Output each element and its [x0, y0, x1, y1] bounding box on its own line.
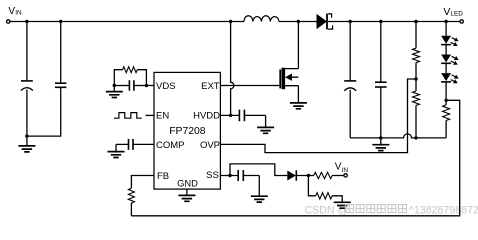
wire OVP pin to divider tap	[220, 79, 416, 153]
svg-text:OVP: OVP	[200, 140, 220, 151]
LED D4	[441, 54, 460, 66]
capacitor COMP	[116, 139, 154, 150]
wire inductor to diode anode	[279, 21, 317, 23]
wire C1 bottom lead	[26, 90, 28, 137]
wire FB pin stub	[131, 176, 154, 189]
ground HVDD cap	[257, 115, 274, 133]
junction OVP divider mid	[414, 77, 417, 80]
VIN input terminal	[7, 20, 10, 23]
wire Co2 bottom lead	[380, 87, 382, 138]
wire HVDD pin stub	[220, 114, 239, 116]
wire Co1 top lead	[349, 22, 351, 81]
diode D2 dimming	[287, 170, 296, 180]
capacitor Co1 electrolytic output	[344, 81, 356, 91]
wire rail diode to VLED	[328, 21, 460, 23]
wire Q1 drain to rail	[297, 22, 299, 69]
svg-text:SS: SS	[206, 170, 219, 181]
svg-text:FB: FB	[157, 171, 169, 182]
junction HVDD node	[229, 114, 232, 117]
wire LED2-LED3	[445, 63, 447, 73]
wire SS dimming loop	[230, 164, 287, 176]
svg-text:LED: LED	[450, 11, 463, 18]
wire VIN top rail	[10, 21, 244, 23]
junction input C2 top	[59, 20, 62, 23]
resistor OVP divider upper	[413, 22, 420, 80]
wire Q1 source down	[297, 86, 299, 103]
junction input C1 top	[25, 20, 28, 23]
watermark CJK glyph blocks	[346, 205, 407, 213]
svg-text:IN: IN	[15, 9, 22, 16]
ground IC GND pin	[178, 189, 195, 201]
wire output ground bus (hops over OVP riser)	[350, 134, 446, 138]
node VLED label	[443, 6, 463, 18]
junction OVP divider top	[414, 20, 417, 23]
resistor dim pull-up	[314, 172, 332, 178]
junction output ground node	[379, 136, 382, 139]
svg-text:^13828798872: ^13828798872	[409, 204, 478, 216]
wire LED1-LED2	[445, 45, 447, 55]
wire feedback sense to FB (right riser + bottom bus)	[131, 100, 459, 216]
resistor dim pull-down	[316, 193, 332, 199]
svg-text:V: V	[443, 6, 450, 18]
watermark CSDN	[305, 204, 478, 216]
svg-text:VDS: VDS	[156, 81, 176, 92]
capacitor Co2 ceramic output	[375, 82, 387, 87]
junction snubber left	[113, 84, 116, 87]
junction Co1 top	[349, 20, 352, 23]
wire C2 top lead	[60, 22, 62, 84]
ground snubber	[106, 86, 123, 98]
resistor LED current sense	[443, 100, 450, 138]
svg-text:HVDD: HVDD	[193, 111, 220, 122]
transistor Q1 N-MOSFET	[280, 68, 298, 90]
junction LED sense node	[444, 99, 447, 102]
wire VDS pin stub	[146, 85, 154, 87]
svg-text:COMP: COMP	[156, 140, 185, 151]
svg-text:IN: IN	[342, 167, 349, 174]
capacitor snubber (VDS RC)	[114, 80, 146, 91]
wire LED cathode lead	[445, 82, 447, 100]
junction Co2 top	[379, 20, 382, 23]
wire Co2 top lead	[380, 22, 382, 83]
capacitor HVDD bypass	[239, 110, 265, 122]
wire C1 top lead	[26, 22, 28, 81]
junction SS node	[228, 174, 231, 177]
wire to dim ground	[332, 196, 342, 203]
wire EN pin stub	[146, 114, 155, 116]
LED D3	[441, 36, 460, 48]
LED D5	[441, 73, 460, 85]
wire Co1 bottom lead	[349, 90, 351, 138]
node VIN label (top-left)	[8, 6, 22, 17]
svg-text:EXT: EXT	[201, 81, 220, 92]
capacitor C2 ceramic input	[55, 83, 66, 87]
ground COMP	[108, 144, 125, 157]
wire to VIN dim terminal	[332, 175, 344, 177]
junction LED string top	[444, 20, 447, 23]
wire dim node down	[308, 176, 315, 196]
op-amp U1 FP7208 IC body	[154, 72, 220, 189]
resistor OVP divider lower	[413, 79, 420, 138]
VIN dim terminal	[344, 174, 347, 177]
capacitor C1 electrolytic input	[21, 81, 33, 91]
diode D1 schottky rectifier	[317, 14, 333, 30]
wire D2 cathode to node	[296, 175, 314, 177]
junction dim node	[307, 174, 310, 177]
resistor FB feedback	[128, 188, 134, 203]
ground SS cap	[251, 176, 268, 203]
junction snubber right / VDS node	[145, 84, 148, 87]
ground input caps	[18, 136, 35, 152]
wire LED string top lead	[445, 22, 447, 36]
svg-text:GND: GND	[177, 178, 198, 189]
junction Q1 drain on rail	[297, 20, 300, 23]
wire FB resistor to bottom bus	[130, 203, 132, 216]
junction HVDD feed on rail	[229, 20, 232, 23]
wire HVDD feed from rail (hops over EXT wire)	[231, 22, 234, 116]
wire C2 bottom lead	[27, 87, 61, 136]
wire EXT to MOSFET gate	[220, 85, 280, 87]
wire SS pin stub	[220, 175, 238, 177]
junction divider bottom on bus	[414, 136, 417, 139]
capacitor SS soft-start	[238, 170, 259, 181]
ground dim pull-down	[334, 202, 351, 208]
ground Q1 source	[290, 103, 307, 109]
resistor snubber (VDS RC)	[114, 67, 146, 86]
svg-text:CSDN @: CSDN @	[305, 204, 349, 216]
ground output caps	[372, 138, 389, 151]
VLED output terminal	[460, 20, 463, 23]
node VIN label (dim input)	[335, 162, 349, 174]
junction input ground node	[25, 134, 28, 137]
svg-text:FP7208: FP7208	[169, 126, 206, 137]
inductor L1 boost	[244, 16, 279, 22]
svg-text:EN: EN	[156, 111, 169, 122]
PWM input waveform symbol (EN)	[114, 113, 142, 119]
